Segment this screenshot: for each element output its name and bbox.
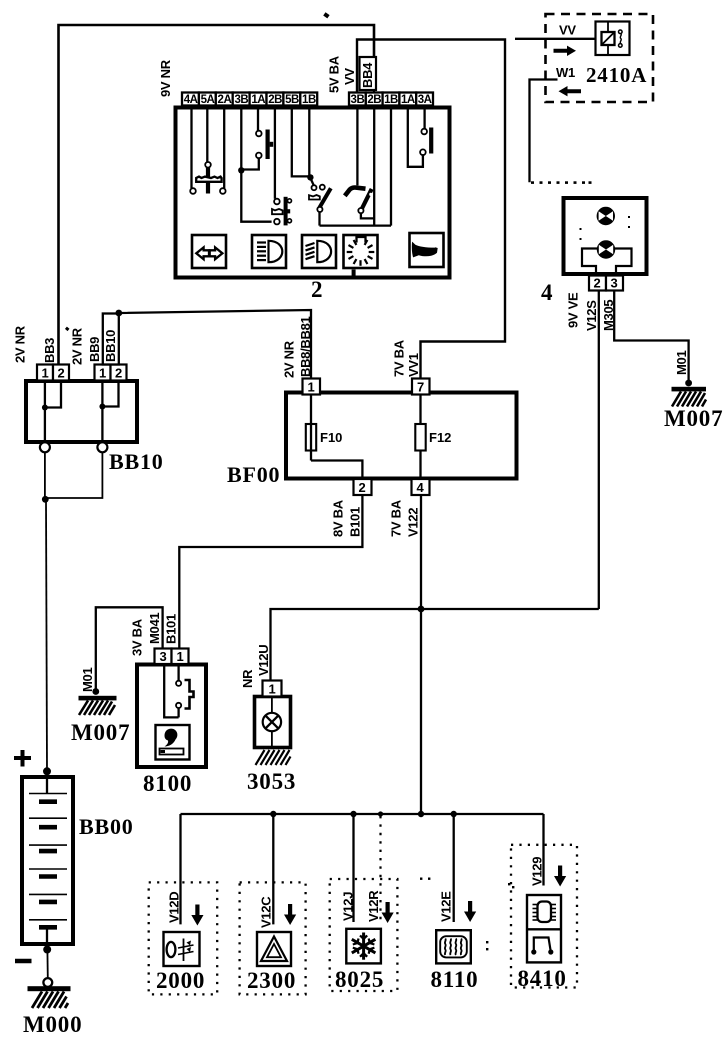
pin 1 connector — [303, 379, 321, 395]
fuse F12 — [419, 395, 421, 480]
wire M041 from pin 3 to ground M007 left — [96, 607, 163, 690]
svg-text:9V VE: 9V VE — [566, 292, 581, 328]
svg-text:1: 1 — [269, 682, 276, 697]
wire V129 drop — [542, 814, 544, 886]
node: 3B junction — [238, 167, 244, 173]
wire 2B right group down — [373, 106, 375, 226]
wire: 9V NR top feed from left border to connector BB4 — [59, 25, 375, 365]
wire V12C drop — [272, 814, 274, 924]
svg-text:3B: 3B — [351, 94, 365, 106]
lighting switch lever bar — [284, 197, 288, 226]
dotted option wire — [531, 181, 592, 184]
svg-text:V12R: V12R — [366, 890, 381, 922]
consumer 2300 (hazard) dashed box — [240, 882, 306, 994]
wire: VV from comodo 3B up and right to x=505 then down to y=341.5 then left to BF00 pin7 riser — [357, 40, 505, 379]
wire 1B down — [308, 106, 310, 177]
svg-text:2B: 2B — [268, 94, 282, 106]
component 3053: lamp — [255, 697, 291, 748]
wire B101 from pin 2 to 8100 pin 1 — [179, 495, 362, 648]
svg-text:4: 4 — [417, 480, 425, 495]
wire junction down then right to low/high contact — [241, 170, 271, 221]
wire inside BB10 right loop — [102, 381, 118, 407]
node: V122/V12U/V12S junction — [418, 606, 425, 613]
pin 3 connector — [606, 276, 623, 291]
svg-text:B101: B101 — [164, 614, 179, 644]
svg-text:2V NR: 2V NR — [282, 340, 297, 378]
svg-text:M007: M007 — [664, 406, 723, 431]
arrow down to 2300 — [284, 904, 296, 925]
svg-text:2B: 2B — [367, 94, 381, 106]
wire: BB4 to terminal 2B of right group — [373, 90, 375, 93]
wire 5A down to wiper-switch lever — [206, 106, 208, 163]
bulb lower — [597, 241, 614, 258]
svg-text:2: 2 — [311, 277, 323, 302]
terminal row right group 3B 2B 1B 1A 3A — [349, 93, 433, 106]
wire M305 from pin 3 to ground M007 right — [614, 291, 688, 383]
svg-text:BB4: BB4 — [360, 62, 375, 88]
svg-text:2: 2 — [359, 480, 366, 495]
arrow down to 8025 — [382, 902, 394, 923]
svg-text:1B: 1B — [384, 94, 398, 106]
park light switch bent lever — [345, 187, 366, 195]
svg-text:BB9: BB9 — [87, 337, 102, 362]
svg-text:5V BA: 5V BA — [327, 55, 342, 93]
connector BB4 (boxed label on wire above comodo) — [360, 57, 377, 90]
node junctions on bus — [270, 811, 276, 817]
wire junction to flasher contact — [241, 158, 258, 169]
svg-text:BB10: BB10 — [109, 449, 164, 474]
svg-text:M000: M000 — [23, 1012, 82, 1037]
arrow down to 2000 — [191, 905, 203, 926]
svg-text:8V BA: 8V BA — [331, 499, 346, 537]
wire BB10 connector to BF00 pin 1 — [119, 310, 311, 379]
horn switch lever bar — [429, 128, 433, 154]
node — [99, 404, 105, 410]
bulb upper — [597, 207, 614, 224]
node: battery positive junction — [43, 767, 51, 775]
svg-text:VV: VV — [342, 68, 357, 85]
wire V12J drop — [352, 814, 354, 922]
pin 2 connector — [589, 276, 606, 291]
svg-text:V129: V129 — [530, 857, 545, 886]
wire right output down and left — [46, 452, 102, 498]
pin 1 connector — [263, 681, 282, 697]
wire 5B down then right — [292, 106, 310, 177]
svg-text:BF00: BF00 — [227, 462, 280, 487]
switch lever bar (turn signal switch) — [206, 168, 210, 194]
component 2: steering column switch unit (comodo) — [176, 108, 450, 278]
battery cells — [46, 777, 48, 794]
wire V12D drop — [179, 814, 181, 924]
stray dots inside unit — [580, 216, 631, 240]
icon horn — [410, 233, 444, 267]
serrated contact bar — [196, 177, 221, 182]
svg-text:V12E: V12E — [439, 891, 454, 922]
lighting switch middle contact — [272, 209, 283, 214]
consumer 8410 (radio) dashed box — [511, 845, 577, 988]
node: merge to battery feed — [42, 496, 49, 503]
wire inside BB10 left loop — [45, 381, 61, 408]
arrow left (return) — [559, 86, 582, 96]
icon box 8410 double — [527, 895, 561, 962]
wire merge down to battery positive — [46, 499, 47, 771]
dip switch upper contacts — [310, 178, 313, 185]
dip switch lever — [320, 188, 331, 207]
pin 2 connector — [354, 479, 372, 495]
black tick under lamp icon box — [352, 270, 356, 278]
bulb holder outline — [582, 249, 632, 275]
cigar lighter icon — [156, 725, 190, 760]
svg-text:M041: M041 — [147, 613, 162, 644]
second lever — [361, 189, 372, 210]
wire 3B down to junction — [240, 106, 242, 171]
svg-text:1: 1 — [308, 380, 315, 395]
svg-text:1: 1 — [177, 649, 184, 664]
svg-text:1A: 1A — [251, 94, 265, 106]
svg-text:2V NR: 2V NR — [70, 327, 85, 365]
consumer 8025 (A/C) dashed box — [330, 879, 398, 991]
svg-text:3V BA: 3V BA — [130, 618, 145, 656]
wire 3B right group down — [356, 106, 358, 186]
ground M000 — [28, 986, 71, 991]
wire junction row: V12U left, V12S right — [271, 609, 599, 681]
svg-text:2000: 2000 — [156, 968, 205, 993]
output terminal circles — [40, 442, 50, 452]
component 8100: cigar lighter — [137, 665, 206, 768]
flasher switch lever bar — [266, 130, 270, 160]
arrow down to 8110 — [464, 901, 476, 922]
svg-text:3: 3 — [160, 649, 167, 664]
wire lever to 2B column — [361, 213, 374, 218]
svg-text:W1: W1 — [556, 65, 575, 80]
icon box 8025 snowflake — [346, 929, 381, 964]
svg-text:M007: M007 — [71, 720, 130, 745]
svg-text:4: 4 — [541, 280, 553, 305]
wire V12S from pin 2 down to junction row — [598, 291, 600, 610]
wire 1A right group down then right and up to horn contact — [408, 106, 423, 167]
icon headlight low beam — [302, 235, 336, 268]
svg-text:V122: V122 — [406, 508, 421, 537]
svg-text:V12D: V12D — [167, 892, 182, 923]
svg-text:1: 1 — [99, 366, 106, 381]
wire VV into relay — [515, 38, 595, 40]
svg-text:F10: F10 — [320, 430, 342, 445]
fuse F10 — [310, 395, 312, 461]
connector right pins 1 2 — [95, 365, 111, 381]
wire V12R dotted drop — [379, 816, 381, 922]
wire bottom link — [320, 224, 392, 226]
svg-text:3: 3 — [611, 276, 618, 291]
svg-text:4A: 4A — [184, 94, 198, 106]
node — [42, 405, 48, 411]
icon turn signals — [192, 235, 226, 268]
terminal row left group 4A 5A 2A 3B 1A 2B 5B 1B — [182, 93, 317, 106]
consumer 8110 (heated rear window) — [420, 878, 514, 951]
wire V12E drop — [453, 814, 455, 922]
node: feed junction at BB10 connector — [115, 310, 122, 317]
svg-text:1B: 1B — [302, 94, 316, 106]
svg-text:9V NR: 9V NR — [158, 59, 173, 97]
svg-text:NR: NR — [240, 669, 255, 688]
lamp symbol — [271, 697, 273, 714]
wire negative to ground — [46, 950, 48, 979]
plus sign — [14, 750, 31, 767]
wire 1A down — [257, 106, 259, 131]
svg-text:B101: B101 — [348, 507, 363, 537]
pin 3 connector — [155, 649, 172, 665]
dip switch side contact — [309, 195, 320, 200]
fuse box BF00 — [286, 393, 517, 479]
optional relay unit 2410A (dashed box) — [546, 14, 654, 102]
ground M007 left — [92, 688, 99, 695]
arrow down to 8410 — [554, 866, 566, 887]
svg-text:2: 2 — [115, 366, 122, 381]
wire 2A down — [223, 106, 225, 189]
svg-text:5B: 5B — [285, 94, 299, 106]
icon lamp sunburst — [344, 235, 378, 268]
minus sign — [15, 959, 32, 963]
svg-text:VV1: VV1 — [406, 353, 421, 377]
svg-text:7V BA: 7V BA — [389, 499, 404, 537]
wire left output down — [44, 452, 46, 499]
svg-text:7: 7 — [417, 380, 424, 395]
wire F10 to pin 2 — [311, 461, 362, 480]
pin 4 connector — [412, 479, 430, 495]
wire 4A down — [190, 106, 192, 189]
svg-text:V12S: V12S — [584, 300, 599, 331]
svg-text:1: 1 — [42, 366, 49, 381]
svg-text:VV: VV — [559, 23, 576, 38]
svg-text:3A: 3A — [418, 94, 432, 106]
pin 7 connector — [412, 379, 430, 395]
ground hatch under 3053 — [256, 750, 291, 765]
svg-text:V12C: V12C — [259, 896, 274, 928]
svg-text:8110: 8110 — [431, 967, 479, 992]
pin 1 connector — [172, 649, 189, 665]
svg-text:M01: M01 — [80, 668, 95, 692]
component 4: lamp unit — [564, 198, 647, 274]
svg-text:2A: 2A — [218, 94, 232, 106]
relay K coil and contact — [596, 22, 630, 56]
svg-text:BB00: BB00 — [79, 814, 134, 839]
svg-text:M01: M01 — [674, 351, 689, 375]
wire V122 from pin 4 down to bus — [420, 495, 422, 814]
node: battery negative — [43, 946, 51, 954]
lighting switch lower contact — [274, 219, 280, 225]
icon box 8110 — [436, 930, 471, 963]
svg-text:8025: 8025 — [335, 967, 384, 992]
svg-text:2: 2 — [58, 366, 65, 381]
icon box 2000 — [164, 932, 200, 966]
svg-text:F12: F12 — [429, 430, 451, 445]
svg-text:3B: 3B — [234, 94, 248, 106]
svg-text:3053: 3053 — [247, 769, 296, 794]
arrow right (feed in) — [554, 46, 577, 56]
switch inside 8100 — [164, 665, 178, 718]
svg-text:5A: 5A — [201, 94, 215, 106]
junction unit BB10 — [26, 381, 137, 442]
wire 2B down — [274, 106, 276, 199]
svg-text:2: 2 — [594, 276, 601, 291]
ground M007 right — [685, 380, 692, 387]
connector BB10 boxed label on wire — [103, 314, 119, 365]
wire W1 return — [530, 80, 558, 183]
connector left pins 1 2 — [37, 365, 53, 381]
icon box 2300 — [257, 932, 291, 966]
node: 5B/1B junction — [307, 174, 313, 180]
svg-text:BB3: BB3 — [42, 338, 57, 363]
svg-text:7V BA: 7V BA — [392, 339, 407, 377]
svg-text:BB8/BB81: BB8/BB81 — [298, 316, 313, 377]
speck artifact near BB3 wire — [65, 327, 70, 331]
wire distribution bus — [181, 813, 544, 815]
wire dip lever down to bottom link — [318, 212, 320, 226]
wire 3A down to horn upper contact — [423, 106, 425, 129]
svg-text:8410: 8410 — [518, 966, 567, 991]
consumer 2000 (instrument lighting) dashed box — [149, 882, 218, 994]
speck artifact near top center — [323, 12, 329, 18]
svg-text:BB10: BB10 — [103, 330, 118, 362]
svg-text:2410A: 2410A — [586, 63, 647, 87]
wire 1B right group down — [390, 106, 392, 226]
svg-text:2300: 2300 — [247, 968, 296, 993]
svg-text:V12U: V12U — [256, 645, 271, 676]
svg-text:2V NR: 2V NR — [13, 325, 28, 363]
svg-text:1A: 1A — [401, 94, 415, 106]
svg-text:V12J: V12J — [341, 892, 356, 921]
svg-text:8100: 8100 — [143, 771, 192, 796]
icon headlight high beam — [252, 235, 286, 268]
